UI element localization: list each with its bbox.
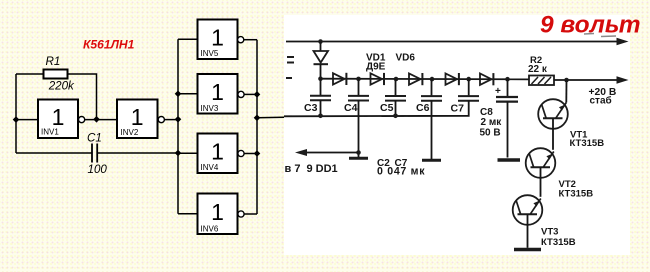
svg-text:22 к: 22 к	[528, 64, 548, 75]
wire: INV3 input stub	[178, 93, 198, 95]
svg-text:КТ315В: КТ315В	[570, 138, 605, 149]
wire: C6 ground branch	[431, 101, 433, 159]
svg-text:C6: C6	[416, 102, 430, 114]
capacitor C3	[320, 79, 322, 95]
op-amp U6: inverter INV6 box	[198, 194, 238, 235]
svg-text:220k: 220k	[48, 80, 75, 93]
wire: clock line to pump	[257, 116, 284, 119]
op-amp U3: inverter INV5 box	[198, 20, 238, 60]
INV1 output bubble	[79, 117, 85, 123]
resistor R2	[529, 76, 554, 86]
scanned page background	[284, 15, 630, 255]
node: output junction	[564, 78, 569, 83]
svg-text:9 DD1: 9 DD1	[307, 163, 338, 175]
wire: +9V top rail	[286, 41, 618, 43]
wire: inverter bank output bus	[256, 40, 258, 214]
svg-text:1: 1	[211, 24, 224, 50]
wire: diode chain rail	[321, 78, 530, 81]
svg-text:в 7: в 7	[285, 163, 301, 175]
wire: R2 out to output arrow	[554, 79, 618, 81]
INV6 output bubble	[238, 211, 244, 217]
svg-text:INV2: INV2	[121, 128, 139, 137]
svg-text:1: 1	[211, 79, 224, 105]
wire: output down to VT1 emitter	[565, 80, 567, 103]
op-amp U1: inverter INV1 box	[38, 100, 78, 139]
node: clock output junction	[254, 115, 261, 122]
node chain j2	[356, 77, 361, 82]
wire: VT1 base to VT2	[552, 118, 554, 150]
transistor VT1	[538, 99, 568, 129]
wire: VT2 base to VT3	[540, 167, 542, 197]
svg-text:100: 100	[88, 163, 108, 176]
ground under VT3	[514, 248, 541, 252]
diode VD2	[333, 73, 345, 84]
wire: INV1 output to node	[85, 119, 117, 121]
node rail r1	[318, 114, 323, 119]
capacitor C8 electrolytic	[507, 79, 509, 96]
transistor VT2	[526, 148, 556, 178]
node: INV1 out / R1 junction	[93, 116, 100, 123]
svg-text:C5: C5	[380, 102, 394, 114]
wire: INV2 output to bus	[164, 119, 178, 121]
transistor VT3	[513, 195, 543, 225]
wire: INV6 output to right bus	[244, 213, 257, 215]
wire: INV4 input stub	[178, 152, 198, 154]
ghost marks	[584, 33, 594, 36]
INV3 output bubble	[238, 91, 244, 97]
wire: C4 ground branch	[358, 101, 360, 158]
svg-text:C1: C1	[87, 131, 102, 144]
node: INV4 out on right bus	[254, 150, 261, 157]
node: rail to diode VD1 junction	[318, 39, 323, 44]
wire: INV1 input	[16, 119, 38, 121]
node: INV3 input junction	[175, 91, 182, 98]
node: INV2 out on bus	[175, 116, 182, 123]
svg-text:0 047 мк: 0 047 мк	[377, 166, 425, 178]
svg-text:C4: C4	[344, 102, 358, 114]
diode VD4	[409, 73, 421, 84]
wire: R1 left	[16, 73, 44, 75]
wire: INV4 output to right bus	[244, 153, 257, 155]
wire: C1 bottom feedback right segment	[97, 152, 178, 154]
wire: R1 right to INV1 output node	[68, 74, 97, 117]
svg-text:INV6: INV6	[201, 224, 219, 233]
wire: pump bottom rail	[284, 101, 469, 117]
diode VD6 symbol	[480, 74, 492, 85]
capacitor C7	[468, 79, 470, 95]
svg-text:INV5: INV5	[201, 49, 219, 58]
op-amp U2: inverter INV2 box	[117, 100, 158, 139]
capacitor C4	[358, 79, 360, 95]
INV2 output bubble	[158, 117, 164, 123]
node: INV3 out on right bus	[254, 91, 261, 98]
svg-text:КТ315В: КТ315В	[541, 237, 576, 248]
svg-text:1: 1	[211, 199, 224, 225]
wire: left feedback vertical	[15, 74, 17, 153]
node chain j3	[394, 77, 399, 82]
svg-text:Д9Е: Д9Е	[366, 61, 386, 72]
diode VD5	[446, 73, 458, 84]
svg-text:C3: C3	[304, 102, 318, 114]
capacitor C1 plates	[91, 144, 93, 163]
output arrowhead	[617, 76, 629, 84]
node chain j6	[505, 77, 510, 82]
svg-text:1: 1	[52, 104, 65, 130]
top rail arrowhead	[617, 38, 629, 46]
svg-text:VD6: VD6	[396, 53, 416, 64]
scan remnant battery marks	[287, 56, 294, 58]
ground under C4	[349, 157, 368, 160]
node: C1 to bus junction	[175, 150, 182, 157]
svg-text:стаб: стаб	[590, 95, 612, 107]
scan remnant wire stub	[286, 77, 292, 79]
svg-text:К561ЛН1: К561ЛН1	[83, 37, 135, 51]
svg-text:1: 1	[211, 138, 224, 164]
svg-text:50 В: 50 В	[480, 127, 501, 138]
diode VD1 vertical	[314, 51, 329, 63]
ground under C8	[498, 158, 521, 162]
wire: INV3 output to right bus	[244, 93, 257, 95]
node: INV1 input junction	[13, 116, 20, 123]
wire: C1 bottom feedback left segment	[16, 152, 92, 154]
wire: inverter bank input bus	[177, 39, 179, 214]
wire: VT3 base to ground	[527, 214, 529, 248]
wire: rail down to VD1	[320, 42, 322, 51]
node chain j4	[430, 77, 435, 82]
wire: INV5 input stub	[178, 38, 198, 40]
op-amp U4: inverter INV3 box	[198, 74, 238, 114]
resistor R1	[44, 70, 68, 79]
diode VD3	[371, 73, 383, 84]
svg-text:+: +	[495, 86, 501, 97]
wire: INV6 input stub	[178, 213, 198, 215]
svg-text:1: 1	[131, 104, 144, 130]
svg-text:C7: C7	[451, 102, 465, 114]
wire: INV5 output to right bus	[244, 39, 257, 41]
svg-text:INV1: INV1	[41, 128, 59, 137]
capacitor C5	[395, 79, 397, 95]
capacitor C6	[431, 79, 433, 95]
ground under C6	[422, 159, 441, 162]
INV4 output bubble	[238, 150, 244, 156]
svg-text:INV4: INV4	[201, 163, 219, 172]
node rail r2	[393, 114, 398, 119]
node: arrow branch	[356, 150, 361, 155]
node chain j1	[318, 76, 323, 81]
wire: arrow to DD1 pins	[305, 152, 359, 154]
node chain j5	[466, 77, 471, 82]
svg-text:INV3: INV3	[201, 104, 219, 113]
svg-text:КТ315В: КТ315В	[559, 188, 594, 199]
svg-text:R1: R1	[46, 55, 61, 68]
INV5 output bubble	[238, 37, 244, 43]
op-amp U5: inverter INV4 box	[198, 134, 238, 174]
